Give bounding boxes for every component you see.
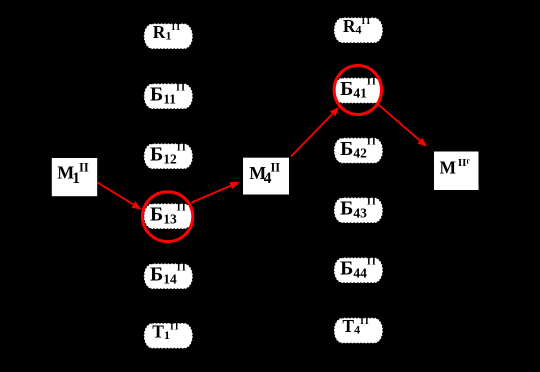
box B41 bbox=[334, 77, 383, 104]
box M1 bbox=[52, 158, 97, 196]
box B12 bbox=[144, 142, 193, 169]
arrow B13 circle to M4 bbox=[192, 182, 240, 203]
box B43 bbox=[334, 196, 383, 223]
box B13 bbox=[144, 202, 193, 229]
box T1 bbox=[144, 321, 193, 348]
box Mout bbox=[434, 152, 479, 191]
box R1 bbox=[144, 22, 193, 49]
box B14 bbox=[144, 262, 193, 289]
circle around B13 bbox=[142, 192, 192, 242]
box B44 bbox=[334, 256, 383, 283]
box B11 bbox=[144, 82, 193, 109]
box R4 bbox=[334, 16, 383, 43]
box M4 bbox=[243, 158, 289, 195]
arrow M1 to B13 circle bbox=[98, 183, 142, 210]
box B42 bbox=[334, 137, 383, 164]
arrow M4 to B41 circle bbox=[291, 107, 339, 157]
box T4 bbox=[334, 316, 383, 343]
arrow B41 circle to Mout bbox=[378, 104, 428, 147]
circle around B41 bbox=[334, 66, 381, 115]
